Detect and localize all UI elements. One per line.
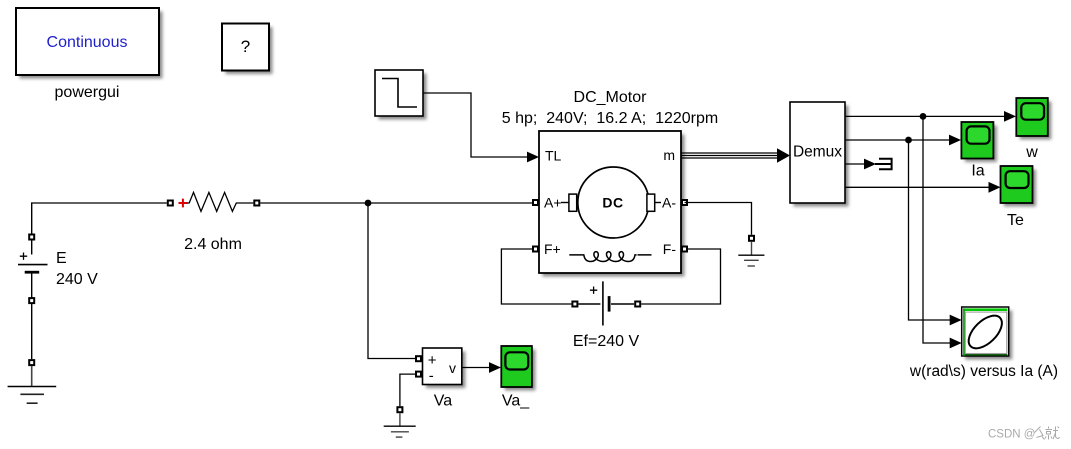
- wire demux out4 to scope Te: [845, 186, 989, 188]
- port square Va minus: [415, 371, 422, 378]
- svg-text:E: E: [56, 250, 67, 267]
- watermark glyph 1: [1035, 427, 1045, 440]
- port square ground A-: [748, 235, 755, 242]
- ground symbol A-: [738, 242, 764, 266]
- svg-text:Va_: Va_: [502, 393, 530, 410]
- port square Va plus: [415, 355, 422, 362]
- ground symbol E: [8, 366, 57, 403]
- port square battery bottom: [28, 297, 35, 304]
- svg-text:CSDN @: CSDN @: [988, 429, 1035, 441]
- wire junction to Va plus: [368, 203, 415, 359]
- svg-text:Continuous: Continuous: [47, 34, 128, 51]
- svg-text:DC: DC: [602, 195, 623, 211]
- wire w branch to XY second input: [923, 116, 950, 343]
- port square battery top: [28, 234, 35, 241]
- terminator glyph: [875, 158, 892, 171]
- lead top: [31, 203, 33, 255]
- wire battery to ground: [31, 304, 33, 359]
- svg-text:240 V: 240 V: [56, 271, 98, 288]
- port square resistor left: [167, 200, 174, 207]
- lead bottom: [31, 272, 33, 300]
- arrowhead into TL: [527, 152, 539, 163]
- junction node Va tap: [365, 200, 372, 207]
- wire resistor to A+: [260, 202, 536, 204]
- wire demux out2 to scope Ia: [845, 139, 950, 141]
- arrowhead into Va scope: [489, 362, 501, 373]
- plate long: [18, 264, 48, 266]
- plus sign: [20, 253, 27, 260]
- arrowhead XY lower: [950, 338, 962, 349]
- step block TL source: [375, 70, 427, 120]
- wire step to TL: [423, 93, 528, 157]
- svg-text:v: v: [449, 360, 456, 376]
- scope w: [1016, 98, 1051, 140]
- svg-text:F-: F-: [663, 241, 677, 257]
- plate long: [602, 281, 604, 325]
- wire Va to scope: [462, 367, 490, 369]
- svg-text:Va: Va: [434, 393, 452, 410]
- junction node out1: [920, 113, 927, 120]
- doc block ?: [222, 24, 273, 75]
- arrowhead into scope Ia: [949, 135, 961, 146]
- svg-text:-: -: [429, 368, 434, 385]
- wire F+ to Ef battery: [501, 249, 571, 304]
- battery E: [18, 203, 48, 301]
- resistor Rs 2.4 ohm: [167, 192, 260, 211]
- plate short: [25, 271, 40, 274]
- wire battery top to resistor: [31, 202, 167, 204]
- triple signal wire m to Demux: [681, 148, 790, 163]
- XY graph block: [962, 307, 1013, 360]
- port square resistor right: [253, 200, 260, 207]
- junction node out2: [905, 137, 912, 144]
- watermark glyph 2: [1045, 427, 1060, 440]
- svg-text:Ia: Ia: [971, 163, 984, 180]
- svg-text:F+: F+: [544, 241, 561, 257]
- svg-text:Te: Te: [1007, 212, 1024, 229]
- wire Ia branch to XY first input: [909, 140, 951, 320]
- scope Te: [1001, 166, 1037, 207]
- arrowhead into terminator: [864, 159, 876, 170]
- lead left: [578, 303, 600, 305]
- svg-text:Demux: Demux: [793, 144, 842, 161]
- plate short: [608, 296, 611, 312]
- arrowhead into scope Te: [989, 182, 1001, 193]
- battery Ef: [571, 281, 641, 325]
- svg-text:5 hp; 240V; 16.2 A; 1220rpm: 5 hp; 240V; 16.2 A; 1220rpm: [502, 110, 718, 127]
- port square ground E: [28, 359, 35, 366]
- svg-text:w: w: [1025, 144, 1038, 161]
- wire Va minus to ground: [400, 374, 415, 406]
- port square A+: [532, 199, 539, 206]
- zigzag: [187, 192, 254, 211]
- svg-text:powergui: powergui: [55, 84, 120, 101]
- lead right: [611, 303, 634, 305]
- port square F+: [532, 246, 539, 253]
- watermark CSDN: [988, 427, 1060, 441]
- svg-text:A+: A+: [544, 195, 562, 211]
- svg-text:TL: TL: [545, 147, 562, 163]
- port square Ef right: [634, 301, 641, 308]
- wire demux out1 to scope w: [845, 115, 1005, 117]
- port square ground Va: [396, 406, 403, 413]
- brush left: [561, 202, 569, 204]
- svg-text:2.4 ohm: 2.4 ohm: [184, 236, 242, 253]
- ground symbol Va: [384, 413, 416, 437]
- svg-text:A-: A-: [662, 195, 676, 211]
- red plus polarity: [179, 199, 188, 208]
- svg-text:Ef=240 V: Ef=240 V: [573, 333, 640, 350]
- scope Va_: [501, 346, 535, 391]
- plus sign: [590, 287, 597, 294]
- svg-text:?: ?: [241, 37, 250, 56]
- Va measurement block: [415, 348, 465, 388]
- arrowhead into scope w: [1004, 111, 1016, 122]
- powergui block U_powergui: [16, 8, 163, 79]
- arrowhead XY upper: [950, 315, 962, 326]
- svg-text:+: +: [428, 352, 437, 369]
- Demux block: [790, 102, 849, 207]
- port square F-: [681, 246, 688, 253]
- DC_Motor block U_DCmotor: [539, 131, 685, 277]
- svg-text:m: m: [663, 147, 675, 163]
- port square Ef left: [571, 301, 578, 308]
- wire demux out3 to terminator: [845, 163, 864, 165]
- port square A-: [681, 199, 688, 206]
- scope Ia: [961, 122, 997, 162]
- brush right: [647, 194, 655, 211]
- wire A- to ground: [685, 203, 752, 235]
- armature circle: [578, 167, 649, 238]
- wire Ef to F-: [641, 249, 720, 304]
- field inductor coil: [569, 252, 651, 262]
- svg-text:DC_Motor: DC_Motor: [574, 89, 648, 106]
- svg-text:w(rad\s) versus Ia (A): w(rad\s) versus Ia (A): [909, 363, 1058, 380]
